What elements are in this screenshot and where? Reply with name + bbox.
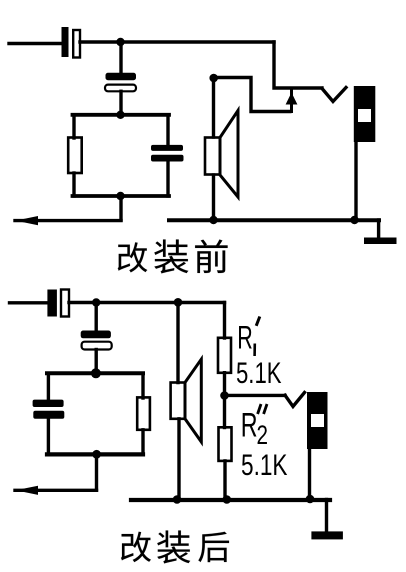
label: caption 改装前 (before modification) [118,240,228,274]
speaker BL (top circuit): terminal wire [212,78,215,137]
speaker BL (top circuit): cone [220,111,238,198]
capacitor C2 (series electrolytic, top circuit) [105,73,136,91]
capacitor C3 (loop cap, top circuit) [151,145,184,162]
label R1' (upper resistor designator) [237,317,259,357]
speaker BL (top circuit): magnet rectangle [205,138,220,175]
wire: loop right branch upper, bottom circuit [141,373,144,398]
wire: between R1 and junction [223,373,226,396]
capacitor C1 (input coupling cap, bottom circuit) [47,290,69,317]
jack XS (headphone jack, bottom circuit) [307,392,328,449]
wire: bottom ground bus, top circuit [169,218,379,222]
wire: speaker junction to wiper corner [214,78,290,112]
svg-text:5.1K: 5.1K [236,357,282,390]
wire: speaker bottom terminal, top circuit [212,175,215,220]
switch contact: V spring of jack, bottom circuit [285,393,305,407]
wire: RC loop right branch upper [166,115,169,146]
jack XS (headphone jack, top circuit) [354,86,376,142]
resistor R (loop damping resistor, bottom circuit) [137,397,150,429]
wire: top main wire from C1 to right corner [80,40,274,43]
wire: vertical from C2 to loop top, bottom circuit [94,350,97,374]
node: jack bottom junction, bottom circuit [306,495,315,504]
node: R2 bottom junction [223,495,232,504]
wire: bottom ground bus, bottom circuit [131,498,330,502]
arrow: left-pointing output arrow, top circuit [16,216,39,225]
node: junction on top wire above C2 [116,38,124,46]
wire: RC loop top [73,113,170,117]
wire: RC loop bottom, bottom circuit [47,452,143,456]
svg-text:2: 2 [257,420,269,450]
node: jack bottom junction [350,216,358,224]
wire: loop left branch upper, bottom circuit [47,373,50,400]
wire: bottom input wire left segment [10,301,48,304]
wire: top input wire left segment [9,42,61,45]
label: caption 改装后 (after modification) [121,530,229,563]
wire: R1 feed corner from main wire, bottom circuit [223,303,226,339]
wire: jack sleeve down to bus [354,142,357,220]
wire: vertical from top wire junction down to C2 [119,42,122,74]
wire: vertical down to C2, bottom circuit [94,303,97,332]
capacitor C3 (loop cap, bottom circuit) [33,400,65,419]
wire: vertical from C2 down to RC loop top [119,91,122,114]
node: junction at top of RC loop [116,111,124,119]
wire: jack sleeve down to bus, bottom circuit [308,449,311,500]
speaker BL (bottom circuit): magnet rectangle [171,383,185,419]
svg-text:R: R [241,406,258,444]
label R2&quot; (lower resistor designator) [241,404,268,450]
wire: loop right branch lower, bottom circuit [141,430,144,454]
wire: speaker bottom terminal, bottom circuit [177,419,180,500]
wire: RC loop left branch upper [72,115,75,138]
svg-text:5.1K: 5.1K [241,449,288,482]
wire: RC loop left branch lower [72,173,75,196]
node: speaker bottom junction [209,216,217,224]
resistor R2 (5.1K lower), bottom circuit [219,427,232,461]
node: junction at loop bottom, bottom circuit [92,450,101,459]
wire: junction down to R2 [223,396,226,428]
wire: bottom main wire from cap to R1 corner [69,301,225,304]
wire: RC loop bottom [73,194,170,198]
resistor R (loop damping resistor, top circuit) [68,138,82,174]
wire: RC loop right branch lower [166,162,169,197]
capacitor C2 (series electrolytic, bottom circuit) [81,331,112,350]
speaker BL (bottom circuit): top terminal wire [176,302,179,382]
svg-text:R: R [237,320,253,356]
capacitor C1 (input coupling cap, top circuit) [62,27,81,58]
wire: to output arrow (left), bottom circuit [15,489,97,492]
wire: bus to ground stub [377,220,380,238]
resistor R1 (5.1K upper), bottom circuit [218,338,231,373]
node: speaker bottom junction, bottom circuit [173,495,182,504]
switch contact: V spring of jack, top circuit [322,88,346,102]
wire: bus to ground stub, bottom circuit [325,500,328,533]
node: junction above C2, bottom circuit [92,298,100,306]
node: speaker top junction, bottom circuit [174,298,183,307]
node: speaker top junction, top circuit [209,74,218,83]
wire: main wire right corner down to jack contact level [274,42,322,88]
wire: junction to jack contact, bottom circuit [225,394,286,397]
arrow: wiper arrow pointing up at jack contact [286,91,298,112]
node: junction between R1 and R2 [220,391,229,400]
speaker BL (bottom circuit): cone [185,359,201,442]
wire: from loop bottom junction down [119,196,122,220]
node: junction at top of RC loop, bottom circuit [91,368,101,378]
ground (top circuit) [364,238,397,245]
wire: RC loop top, bottom circuit [47,371,143,375]
node: junction at bottom of RC loop [116,192,124,200]
ground (bottom circuit) [311,531,343,539]
wire: loop bottom junction down, bottom circuit [95,454,98,490]
wire: loop left branch lower, bottom circuit [47,419,50,454]
wire: to output arrow (left), top circuit [15,219,121,222]
arrow: left-pointing output arrow, bottom circuit [16,486,39,495]
wire: R2 down to bottom bus [223,461,226,500]
